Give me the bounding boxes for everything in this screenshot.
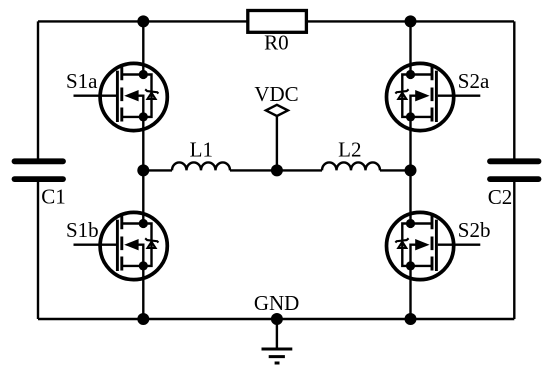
transistor S2a — [387, 63, 481, 130]
wire right leg upper — [409, 21, 411, 74]
node mid-center junction — [271, 164, 283, 176]
svg-text:C2: C2 — [488, 185, 513, 209]
svg-text:S2a: S2a — [458, 69, 490, 93]
svg-text:L2: L2 — [338, 138, 361, 162]
wire right rail upper — [513, 21, 515, 161]
capacitor C1 — [15, 161, 64, 179]
wire left leg middle — [142, 117, 144, 224]
wire right leg middle — [409, 117, 411, 224]
wire mid left — [143, 169, 172, 171]
wire left leg lower — [142, 266, 144, 319]
svg-text:VDC: VDC — [254, 82, 298, 106]
svg-text:GND: GND — [254, 291, 300, 315]
ground symbol — [262, 349, 293, 363]
inductor L2 — [322, 162, 380, 170]
svg-text:S1b: S1b — [66, 218, 99, 242]
capacitor C2 — [490, 161, 539, 179]
wire ground stem — [276, 319, 278, 349]
wire left leg upper — [142, 21, 144, 74]
resistor R0 — [248, 11, 307, 33]
wire left rail upper — [37, 21, 39, 161]
node mid-right junction — [405, 164, 417, 176]
wire mid right — [380, 169, 411, 171]
wire right rail lower — [513, 179, 515, 319]
transistor S2b — [387, 212, 481, 279]
node top-right junction — [405, 15, 417, 27]
wire top rail — [38, 20, 514, 22]
inductor L1 — [172, 162, 230, 170]
wire right leg lower — [409, 266, 411, 319]
node bottom-left junction — [137, 313, 149, 325]
svg-text:C1: C1 — [41, 185, 66, 209]
node top-left junction — [137, 15, 149, 27]
wire left rail lower — [37, 179, 39, 319]
transistor S1b — [74, 212, 168, 279]
svg-text:R0: R0 — [264, 31, 289, 55]
node mid-left junction — [137, 164, 149, 176]
VDC source diamond — [266, 105, 288, 116]
svg-text:L1: L1 — [190, 138, 213, 162]
wire bottom rail — [38, 318, 514, 320]
wire VDC stem — [276, 116, 278, 170]
node bottom-right junction — [405, 313, 417, 325]
transistor S1a — [74, 63, 168, 130]
svg-text:S2b: S2b — [458, 218, 491, 242]
svg-text:S1a: S1a — [66, 69, 98, 93]
node ground junction — [271, 313, 283, 325]
wire mid center — [230, 169, 322, 171]
